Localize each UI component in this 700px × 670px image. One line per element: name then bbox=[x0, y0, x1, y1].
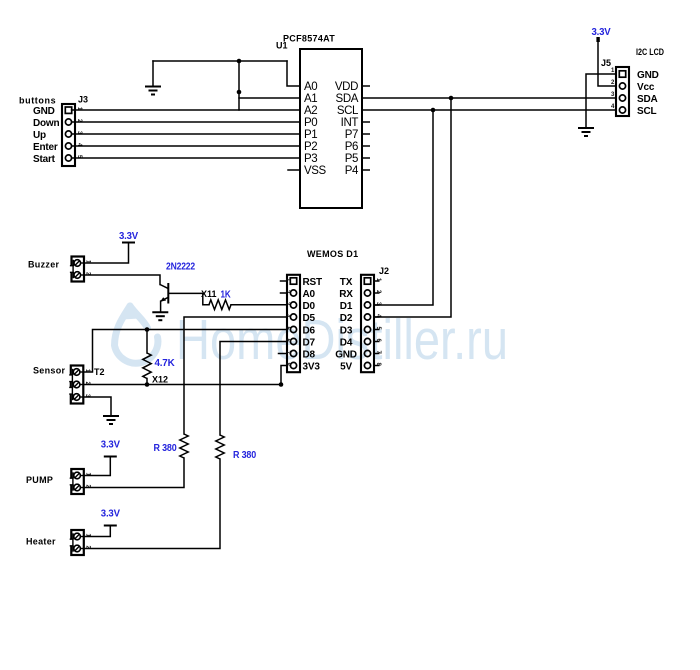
svg-text:I2C LCD: I2C LCD bbox=[636, 47, 664, 57]
svg-text:TX: TX bbox=[340, 277, 353, 288]
svg-text:Sensor: Sensor bbox=[33, 366, 66, 376]
svg-text:P0: P0 bbox=[304, 117, 317, 129]
wire Start to P3 bbox=[72, 157, 300, 159]
power 3.3V supply (LCD) bbox=[592, 27, 611, 42]
svg-text:3.3V: 3.3V bbox=[101, 440, 120, 451]
connector pin numbers bbox=[84, 473, 90, 489]
J1 pin 1 square bbox=[290, 278, 296, 284]
wire 3.3V to buzzer pin1 bbox=[84, 243, 129, 264]
svg-text:VSS: VSS bbox=[304, 165, 327, 177]
svg-text:J2: J2 bbox=[379, 266, 389, 276]
svg-text:GND: GND bbox=[33, 106, 55, 117]
svg-text:J3: J3 bbox=[78, 95, 88, 105]
resistor X11 1K bbox=[209, 300, 231, 310]
connector J3 body bbox=[62, 104, 75, 166]
wire 4.7K top lead bbox=[146, 330, 148, 354]
junction SDA at (451,98) bbox=[449, 96, 454, 101]
wire Q1 emitter to ground bbox=[160, 301, 162, 312]
svg-text:PCF8574AT: PCF8574AT bbox=[283, 34, 335, 44]
svg-text:P5: P5 bbox=[345, 153, 358, 165]
wire R380 to heater pin2 bbox=[84, 459, 220, 549]
J2 pin 1 square bbox=[364, 278, 370, 284]
svg-text:A0: A0 bbox=[303, 289, 316, 300]
wire Up to P1 bbox=[72, 133, 300, 135]
wire A0/A1 ground net horizontal bbox=[153, 60, 287, 62]
svg-text:R 380: R 380 bbox=[154, 443, 178, 454]
wire 3.3V to heater pin1 bbox=[84, 526, 110, 537]
wire SDA to D2 bbox=[374, 98, 451, 317]
wire Enter to P2 bbox=[72, 145, 300, 147]
svg-text:GND: GND bbox=[335, 350, 357, 361]
wire D7 net bbox=[220, 342, 287, 436]
svg-text:D8: D8 bbox=[303, 350, 316, 361]
wire SCL net U1 to J5 bbox=[362, 109, 616, 111]
wire Down to P0 bbox=[72, 121, 300, 123]
wire 4.7K bottom lead bbox=[146, 379, 148, 385]
connector J5 body bbox=[616, 67, 629, 116]
svg-text:D4: D4 bbox=[340, 338, 353, 349]
connector PUMP body bbox=[69, 469, 84, 494]
wire J5 GND to ground bbox=[586, 74, 616, 128]
wire ground stem GND1 bbox=[152, 61, 154, 87]
svg-text:4: 4 bbox=[611, 104, 615, 110]
svg-text:P1: P1 bbox=[304, 129, 317, 141]
svg-text:3.3V: 3.3V bbox=[592, 27, 611, 38]
ground symbol GND2 (LCD) bbox=[578, 128, 594, 136]
junction A1 net at (239,92) bbox=[237, 90, 242, 95]
header J1 left body bbox=[287, 275, 300, 372]
svg-text:D2: D2 bbox=[340, 313, 353, 324]
header J2 right body bbox=[361, 275, 374, 372]
J1 left pin names bbox=[303, 277, 322, 373]
wire sensor pin2 X12 net bbox=[83, 384, 281, 386]
U1 right pin stubs VDD INT P7 P6 P5 P4 bbox=[362, 86, 370, 170]
svg-text:1: 1 bbox=[611, 68, 615, 74]
J5 pins 2-4 bbox=[619, 83, 625, 113]
wire X11 to D0 bbox=[231, 304, 287, 306]
J1 stub D8 bbox=[279, 353, 288, 355]
svg-text:SCL: SCL bbox=[337, 105, 359, 117]
J1 pins 2-8 bbox=[290, 290, 296, 369]
wire 3.3V to J5 Vcc bbox=[598, 38, 616, 86]
J3 pin 1 square bbox=[65, 107, 71, 113]
junction X12/sensor at (147,384.5) bbox=[145, 382, 150, 387]
svg-text:X12: X12 bbox=[152, 375, 168, 385]
resistor X12 4.7K bbox=[143, 353, 151, 379]
svg-text:Vcc: Vcc bbox=[637, 82, 655, 93]
wire SDA net U1 to J5 bbox=[362, 97, 616, 99]
svg-text:SDA: SDA bbox=[336, 93, 359, 105]
wire A0 drop to pin bbox=[287, 61, 300, 86]
svg-text:SCL: SCL bbox=[637, 106, 656, 117]
wire A1/A2 vertical bbox=[238, 61, 240, 110]
resistor R380 (heater) bbox=[216, 435, 224, 459]
svg-text:A1: A1 bbox=[304, 93, 317, 105]
J2 right pin stubs bbox=[374, 281, 380, 366]
svg-text:D3: D3 bbox=[340, 326, 353, 337]
svg-text:PUMP: PUMP bbox=[26, 475, 53, 485]
svg-text:T2: T2 bbox=[94, 367, 105, 377]
svg-text:Up: Up bbox=[33, 130, 46, 141]
svg-text:3.3V: 3.3V bbox=[101, 509, 120, 520]
svg-text:RX: RX bbox=[339, 289, 353, 300]
svg-text:WEMOS D1: WEMOS D1 bbox=[307, 249, 358, 259]
J2 right pin names bbox=[335, 277, 357, 373]
svg-text:Heater: Heater bbox=[26, 537, 56, 547]
wire 3.3V to pump pin1 bbox=[84, 457, 110, 476]
resistor R380 (pump) bbox=[180, 434, 188, 458]
J1 stub RST bbox=[281, 280, 288, 282]
wire sensor pin1 to D6 bbox=[83, 330, 287, 373]
svg-text:VDD: VDD bbox=[335, 81, 358, 93]
svg-text:J5: J5 bbox=[601, 58, 611, 68]
junction 3V3 net at (281,384.5) bbox=[279, 382, 284, 387]
wire GND to A2 bbox=[72, 109, 300, 111]
power 3.3V supply (buzzer) bbox=[119, 231, 138, 243]
svg-text:INT: INT bbox=[341, 117, 359, 129]
wire A1 to pin bbox=[239, 97, 300, 99]
transistor Q1 2N2222 bbox=[160, 283, 168, 304]
wire X12 net to 3V3 pin bbox=[281, 366, 287, 385]
svg-text:3: 3 bbox=[611, 92, 615, 98]
IC U1 PCF8574AT body bbox=[300, 49, 362, 208]
power 3.3V supply (pump) bbox=[101, 440, 120, 457]
wire sensor pin3 to ground bbox=[83, 397, 111, 416]
svg-text:D6: D6 bbox=[303, 326, 316, 337]
svg-text:2: 2 bbox=[611, 80, 615, 86]
ground symbol GND3 (Q1 emitter) bbox=[152, 312, 168, 320]
svg-text:P2: P2 bbox=[304, 141, 317, 153]
svg-text:A2: A2 bbox=[304, 105, 317, 117]
svg-text:X11: X11 bbox=[201, 289, 217, 299]
svg-text:D7: D7 bbox=[303, 338, 316, 349]
connector pin numbers bbox=[85, 260, 91, 276]
ground symbol GND4 (sensor) bbox=[103, 416, 119, 424]
watermark logo drop bbox=[115, 306, 158, 363]
svg-text:2N2222: 2N2222 bbox=[166, 262, 196, 273]
J5 pin numbers bbox=[611, 68, 615, 110]
U1 VSS stub bbox=[288, 169, 300, 171]
connector pin numbers bbox=[84, 534, 90, 550]
J2 pins 2-8 bbox=[364, 290, 370, 369]
svg-text:D5: D5 bbox=[303, 313, 316, 324]
svg-text:4.7K: 4.7K bbox=[155, 358, 176, 369]
power 3.3V supply (heater) bbox=[101, 509, 120, 526]
svg-text:Buzzer: Buzzer bbox=[28, 260, 60, 270]
svg-text:3.3V: 3.3V bbox=[119, 231, 138, 242]
J1 pin numbers bbox=[284, 278, 290, 367]
J3 pins 2-5 bbox=[65, 119, 71, 161]
wire Q1 base bbox=[168, 293, 209, 304]
connector Buzzer body bbox=[70, 257, 85, 282]
svg-text:U1: U1 bbox=[276, 41, 288, 51]
svg-text:GND: GND bbox=[637, 70, 659, 81]
svg-text:A0: A0 bbox=[304, 81, 317, 93]
wire R380 to pump pin2 bbox=[84, 458, 184, 488]
svg-text:Start: Start bbox=[33, 154, 56, 165]
svg-text:5V: 5V bbox=[340, 362, 352, 373]
svg-text:buttons: buttons bbox=[19, 96, 56, 106]
J3 pin numbers bbox=[76, 107, 82, 159]
svg-text:P3: P3 bbox=[304, 153, 317, 165]
connector Heater body bbox=[69, 530, 84, 555]
svg-text:3V3: 3V3 bbox=[303, 362, 321, 373]
junction SCL at (433,110) bbox=[431, 108, 436, 113]
connector pin numbers bbox=[84, 369, 90, 398]
svg-text:P7: P7 bbox=[345, 129, 358, 141]
U1 left pin names bbox=[304, 81, 327, 177]
svg-text:SDA: SDA bbox=[637, 94, 658, 105]
svg-text:RST: RST bbox=[303, 277, 322, 288]
svg-text:Enter: Enter bbox=[33, 142, 58, 153]
wire D5 net bbox=[184, 317, 287, 434]
junction A1 net at (239,61) bbox=[237, 59, 242, 64]
J2 pin numbers bbox=[375, 278, 381, 367]
svg-text:R 380: R 380 bbox=[233, 450, 257, 461]
svg-text:P4: P4 bbox=[345, 165, 359, 177]
J5 pin 1 square bbox=[619, 71, 625, 77]
svg-text:D1: D1 bbox=[340, 301, 353, 312]
ground symbol GND1 (A0/A1 net) bbox=[145, 87, 161, 95]
J1 stub A0 bbox=[281, 292, 288, 294]
junction D6/4.7K at (147,329.5) bbox=[145, 327, 150, 332]
svg-text:Down: Down bbox=[33, 118, 60, 129]
wire SCL to D1 bbox=[374, 110, 433, 305]
U1 right pin names bbox=[335, 81, 359, 177]
svg-text:D0: D0 bbox=[303, 301, 316, 312]
connector T2 Sensor body bbox=[69, 366, 84, 404]
svg-text:1K: 1K bbox=[221, 290, 232, 301]
svg-text:P6: P6 bbox=[345, 141, 358, 153]
wire buzzer pin2 to Q1 collector bbox=[84, 275, 160, 285]
